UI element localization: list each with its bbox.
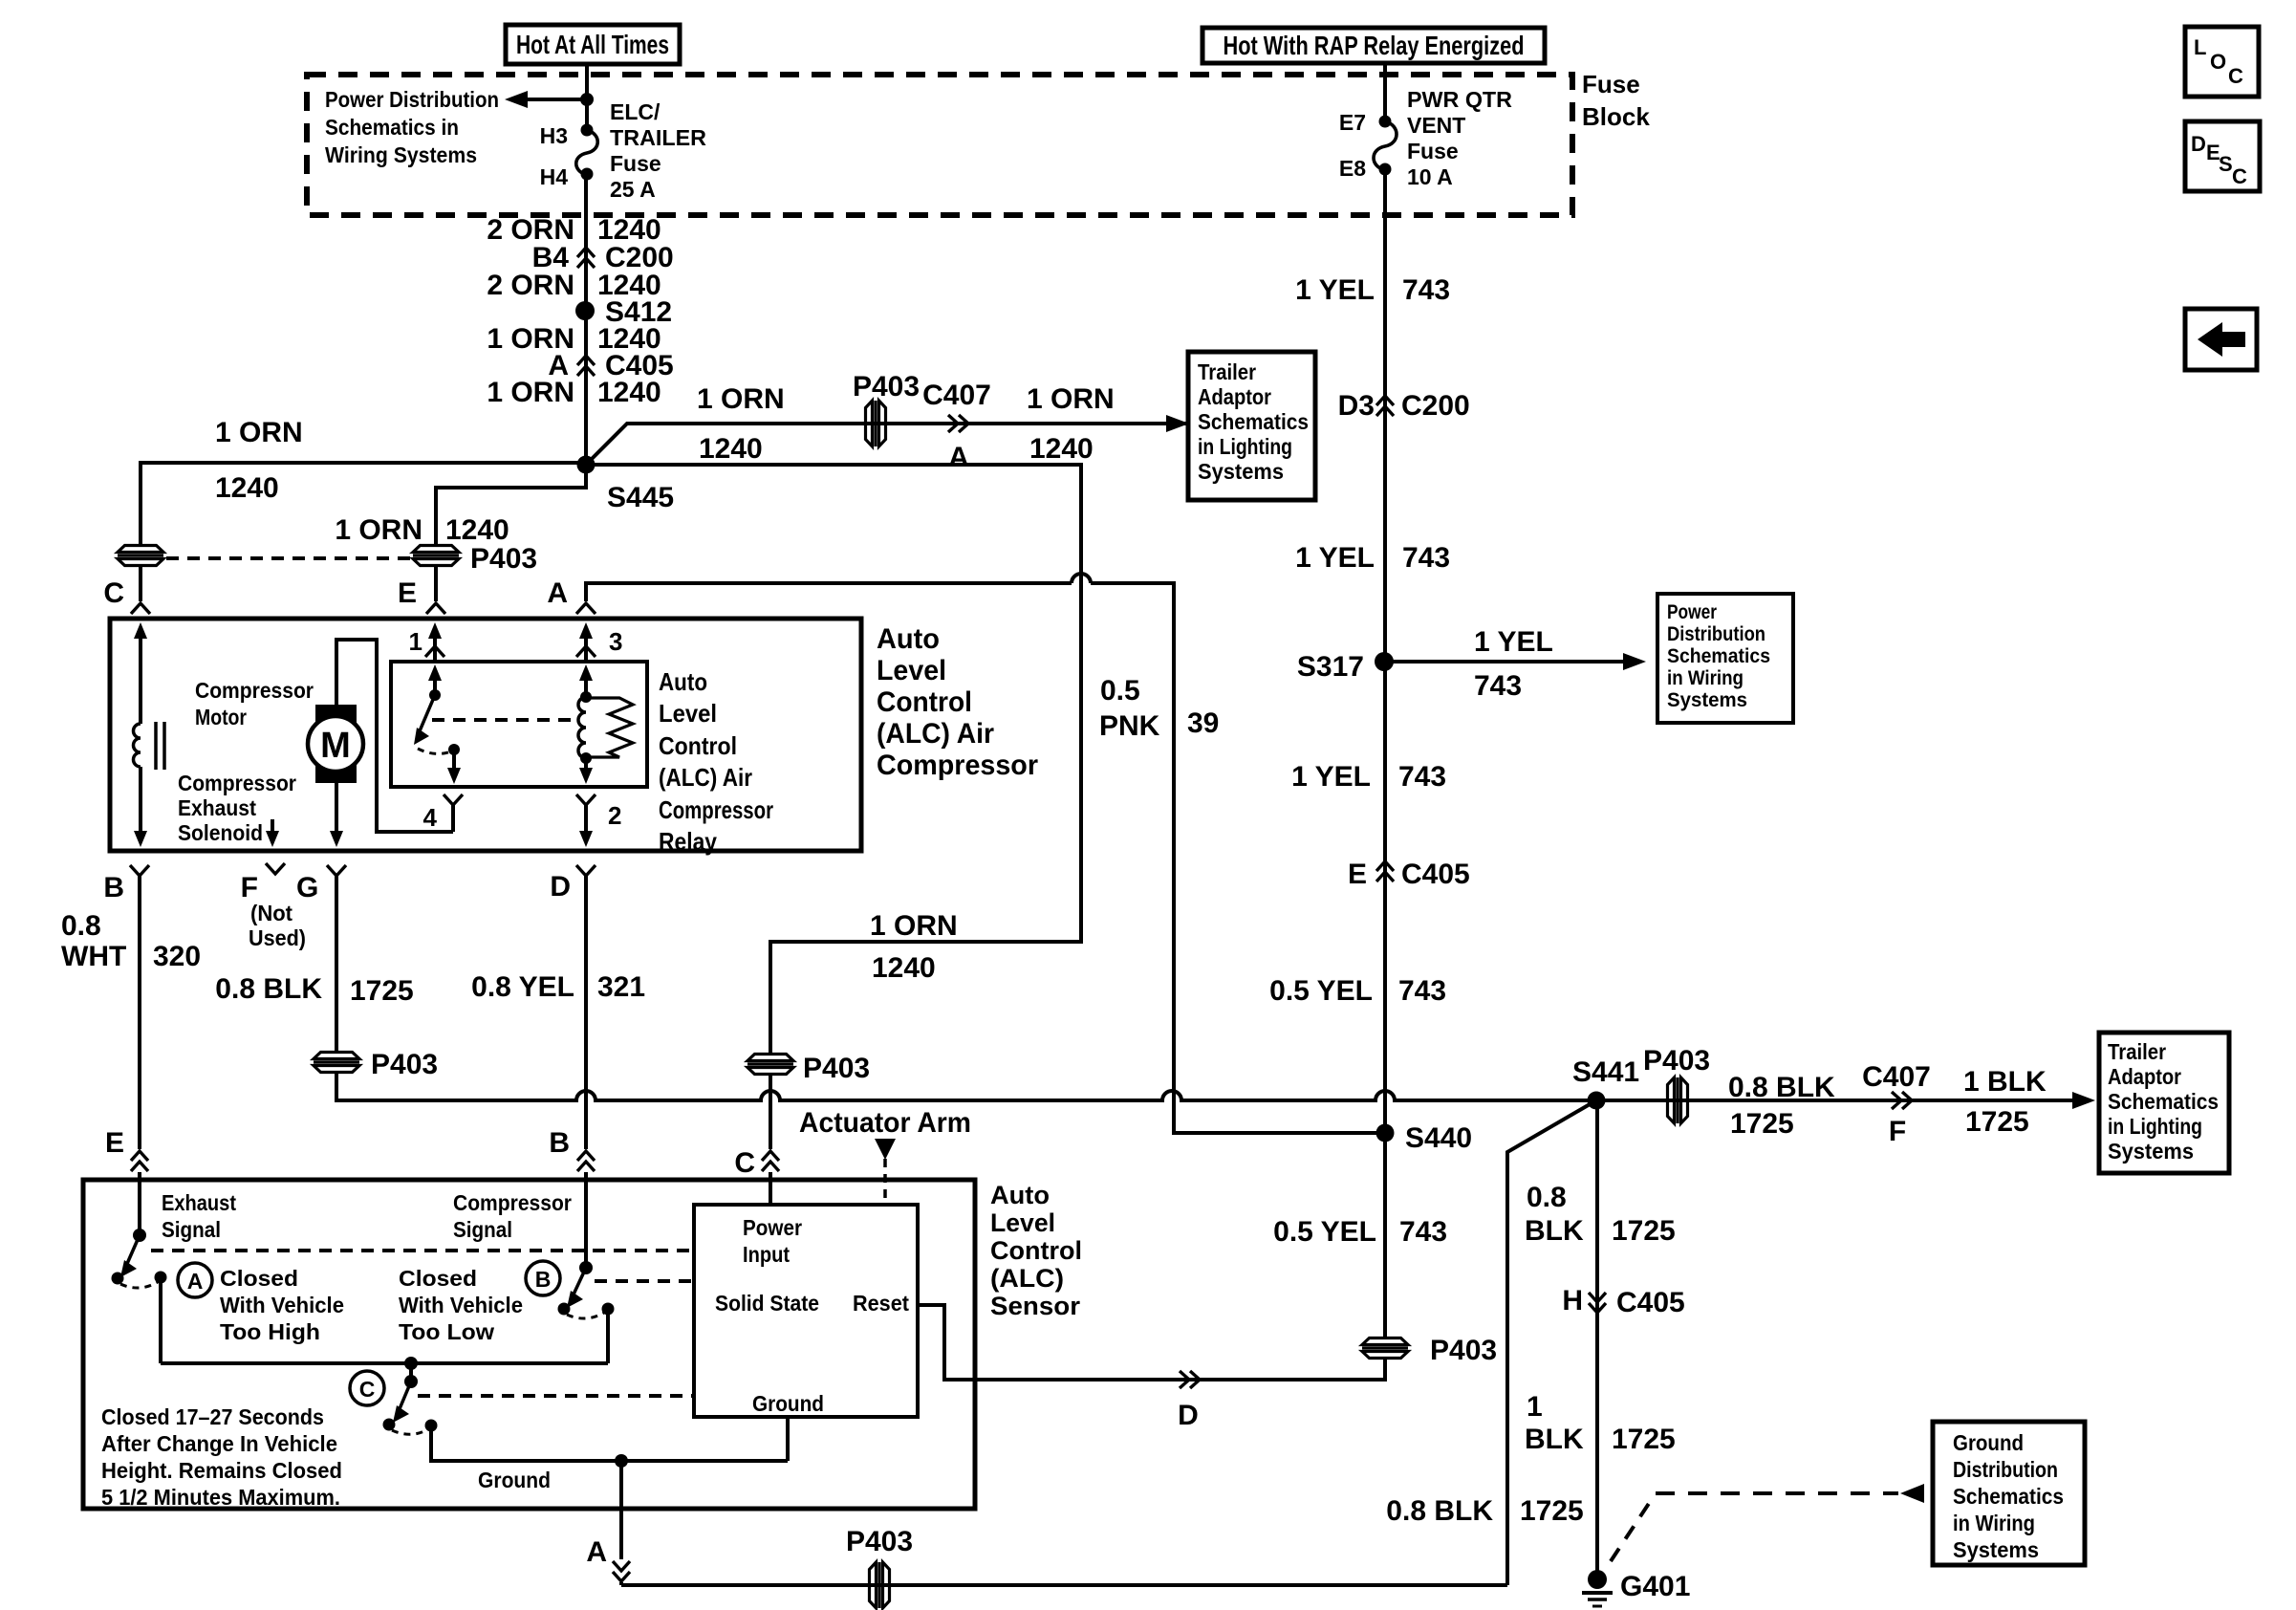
svg-text:PWR QTR: PWR QTR — [1407, 87, 1512, 112]
terminal B of compressor — [103, 865, 149, 1149]
dashed link between grommets — [166, 556, 411, 560]
svg-text:0.8 BLK: 0.8 BLK — [1728, 1072, 1835, 1103]
svg-text:F: F — [1889, 1116, 1906, 1147]
svg-text:1240: 1240 — [1029, 433, 1094, 465]
svg-text:321: 321 — [597, 971, 645, 1003]
svg-text:1725: 1725 — [1965, 1106, 2029, 1138]
terminal F of compressor (not used) — [241, 863, 319, 950]
label: 1 ORN 1240 on left branch — [215, 417, 303, 504]
svg-text:(ALC) Air: (ALC) Air — [877, 718, 994, 750]
relay pin 3 terminal — [576, 622, 622, 662]
svg-text:1: 1 — [409, 627, 422, 656]
svg-text:Schematics: Schematics — [1953, 1484, 2064, 1509]
svg-text:0.8: 0.8 — [61, 910, 101, 942]
svg-text:(Not: (Not — [250, 901, 292, 925]
svg-text:Signal: Signal — [162, 1217, 221, 1242]
wire: main ORN vertical from fuse H4 down to S445 — [584, 174, 588, 465]
label: 1 ORN 1240 on riser — [870, 910, 958, 984]
svg-text:743: 743 — [1399, 1216, 1447, 1248]
svg-text:Input: Input — [743, 1242, 790, 1267]
terminal G of compressor — [327, 865, 346, 1052]
svg-text:BLK: BLK — [1525, 1424, 1584, 1455]
svg-text:P403: P403 — [1430, 1335, 1497, 1366]
svg-text:743: 743 — [1398, 975, 1446, 1007]
sensor terminal A — [586, 1536, 630, 1585]
svg-text:320: 320 — [153, 941, 201, 972]
wire: grommet to E terminal — [434, 566, 438, 601]
svg-text:P403: P403 — [803, 1053, 870, 1084]
grommet P403 E column — [413, 543, 537, 575]
svg-text:Distribution: Distribution — [1667, 623, 1765, 645]
svg-text:Fuse: Fuse — [610, 151, 661, 176]
wire: switch C to ground rail — [431, 1425, 788, 1461]
svg-text:Used): Used) — [249, 925, 306, 950]
svg-text:Distribution: Distribution — [1953, 1457, 2058, 1482]
label: 0.8 WHT 320 — [61, 910, 201, 972]
connector C200 pin B4 — [532, 242, 674, 273]
svg-text:P403: P403 — [853, 371, 920, 402]
relay pin 2 terminal — [576, 794, 621, 847]
svg-text:H: H — [1562, 1285, 1583, 1316]
wire: arrow to Power Distribution reference — [505, 91, 587, 108]
svg-text:M: M — [320, 726, 351, 766]
not-used terminal F stub arrow — [266, 819, 279, 847]
wire: from RAP header down to fuse E7 — [1383, 63, 1387, 121]
svg-text:Solid State: Solid State — [715, 1291, 819, 1316]
splice S445 — [577, 456, 675, 514]
svg-text:Motor: Motor — [195, 705, 247, 729]
svg-text:Schematics: Schematics — [1667, 645, 1770, 667]
svg-text:Reset: Reset — [853, 1291, 909, 1316]
svg-text:Auto: Auto — [659, 667, 707, 696]
svg-text:C: C — [734, 1147, 755, 1179]
relay box — [391, 662, 647, 787]
node: junction at power distribution tap — [580, 93, 594, 106]
arrow into trailer adaptor box (bottom) — [2072, 1092, 2095, 1109]
label: 0.8 BLK 1725 — [1728, 1072, 1835, 1140]
svg-text:F: F — [241, 872, 258, 903]
connector C200 pin D3 — [1338, 390, 1470, 422]
svg-text:1725: 1725 — [1612, 1424, 1676, 1455]
header box: Hot At All Times — [506, 25, 680, 64]
svg-text:10 A: 10 A — [1407, 164, 1453, 189]
wire: S441 diagonal branch down left — [1507, 1100, 1596, 1585]
svg-text:Trailer: Trailer — [1198, 359, 1256, 384]
wire: ground pin down to rail — [786, 1417, 790, 1461]
svg-text:Ground: Ground — [752, 1391, 824, 1416]
svg-text:D: D — [1178, 1400, 1199, 1431]
svg-text:Power Distribution: Power Distribution — [325, 87, 499, 112]
relay coil — [578, 664, 593, 764]
svg-text:in Lighting: in Lighting — [2108, 1114, 2202, 1139]
arrow into trailer adaptor box — [1166, 415, 1189, 432]
terminal C of compressor — [103, 577, 150, 614]
compressor exhaust solenoid coil — [134, 622, 165, 847]
svg-text:O: O — [2210, 50, 2226, 74]
label: 1 YEL 743 — [1291, 761, 1446, 793]
label: 0.5 YEL 743 below S440 — [1273, 1216, 1447, 1248]
svg-text:TRAILER: TRAILER — [610, 125, 706, 150]
svg-text:S441: S441 — [1572, 1056, 1639, 1088]
svg-text:Block: Block — [1582, 102, 1650, 131]
svg-text:1725: 1725 — [350, 975, 414, 1007]
wire hop over ORN vertical — [1072, 574, 1091, 583]
svg-text:Signal: Signal — [453, 1217, 512, 1242]
svg-text:1: 1 — [1527, 1391, 1543, 1423]
svg-text:E: E — [398, 577, 417, 609]
svg-text:Power: Power — [1667, 601, 1717, 623]
svg-text:C: C — [2232, 164, 2247, 188]
svg-text:C407: C407 — [922, 380, 991, 411]
switch A (exhaust) — [112, 1172, 167, 1363]
svg-text:(ALC): (ALC) — [990, 1264, 1064, 1293]
dashed reference to ground distribution — [1611, 1484, 1924, 1561]
reference box: Ground Distribution Schematics in Wiring Systems — [1933, 1422, 2085, 1565]
wire: S445 down branch to E grommet — [436, 465, 586, 545]
wire: from Hot At All Times down to fuse H3 — [585, 64, 589, 130]
relay switch dashed actuate line — [432, 718, 575, 722]
svg-text:BLK: BLK — [1525, 1215, 1584, 1247]
svg-text:1 ORN: 1 ORN — [697, 383, 785, 415]
fuse F1: ELC/TRAILER Fuse 25 A, terminals H3 H4 — [540, 99, 707, 202]
label: 1 ORN 1240 before P403 — [697, 383, 785, 465]
connector C407 pin A on trailer feed — [922, 380, 991, 473]
svg-text:39: 39 — [1187, 707, 1219, 739]
svg-text:Too Low: Too Low — [399, 1319, 494, 1344]
switch C timer — [383, 1357, 438, 1434]
svg-text:With Vehicle: With Vehicle — [399, 1293, 523, 1317]
svg-text:VENT: VENT — [1407, 113, 1465, 138]
svg-text:1240: 1240 — [872, 952, 936, 984]
terminal A of compressor — [547, 577, 596, 614]
svg-text:Systems: Systems — [1198, 459, 1284, 484]
svg-text:Control: Control — [990, 1236, 1082, 1265]
svg-text:1 YEL: 1 YEL — [1295, 542, 1375, 574]
button box: back arrow — [2185, 309, 2257, 370]
svg-text:H4: H4 — [540, 164, 569, 189]
wire: ground rail to terminal A — [619, 1461, 623, 1559]
svg-text:0.5 YEL: 0.5 YEL — [1269, 975, 1373, 1007]
label: Closed With Vehicle Too High — [220, 1266, 344, 1344]
svg-text:Schematics in: Schematics in — [325, 115, 459, 140]
connector C407 pin D on reset line — [1178, 1371, 1200, 1431]
svg-text:Level: Level — [990, 1208, 1055, 1237]
circled B — [526, 1261, 560, 1295]
label: 0.8 BLK 1725 bottom — [1386, 1495, 1583, 1527]
svg-text:1 YEL: 1 YEL — [1291, 761, 1371, 793]
connector C405 pin H — [1562, 1285, 1684, 1318]
wire: S441 to trailer adaptor (bottom right) — [1596, 1099, 2086, 1102]
svg-text:D: D — [550, 871, 571, 903]
ALC sensor box — [83, 1180, 975, 1509]
solid state box — [694, 1205, 918, 1417]
label: 1 ORN 1240 after C407 — [1027, 383, 1115, 465]
splice S441 — [1572, 1056, 1639, 1110]
svg-text:0.8 YEL: 0.8 YEL — [471, 971, 574, 1003]
relay pin 4 terminal — [423, 794, 463, 832]
svg-text:A: A — [586, 1536, 607, 1568]
svg-text:Auto: Auto — [877, 623, 940, 655]
svg-text:S440: S440 — [1405, 1122, 1472, 1154]
svg-text:A: A — [948, 442, 969, 473]
svg-text:1 ORN: 1 ORN — [215, 417, 303, 448]
compressor motor M — [308, 705, 363, 783]
label: Auto Level Control (ALC) Air Compressor Relay — [659, 667, 773, 856]
svg-text:0.5 YEL: 0.5 YEL — [1273, 1216, 1376, 1248]
label: 1 YEL 743 — [1295, 542, 1450, 574]
svg-text:P403: P403 — [846, 1526, 913, 1557]
svg-text:5 1/2 Minutes Maximum.: 5 1/2 Minutes Maximum. — [101, 1485, 340, 1510]
svg-text:0.8: 0.8 — [1527, 1182, 1567, 1213]
relay switch — [414, 664, 461, 784]
label: 1 ORN 1240 — [487, 323, 661, 355]
switch B (compressor) — [558, 1172, 615, 1363]
svg-text:743: 743 — [1474, 670, 1522, 702]
svg-text:0.8 BLK: 0.8 BLK — [1386, 1495, 1493, 1527]
wire: A terminal riser of PNK circuit — [586, 583, 1072, 601]
label: Compressor Exhaust Solenoid — [178, 771, 296, 845]
svg-text:Ground: Ground — [1953, 1430, 2024, 1455]
svg-text:in Wiring: in Wiring — [1667, 667, 1744, 689]
svg-text:C: C — [2228, 64, 2243, 88]
svg-text:Systems: Systems — [1667, 689, 1747, 711]
svg-text:Schematics: Schematics — [2108, 1089, 2219, 1114]
svg-text:Compressor: Compressor — [453, 1190, 572, 1215]
svg-text:Compressor: Compressor — [195, 678, 314, 703]
ground G401 — [1582, 1570, 1690, 1606]
svg-text:1 YEL: 1 YEL — [1474, 626, 1553, 658]
svg-text:0.5: 0.5 — [1100, 675, 1140, 707]
svg-text:1 YEL: 1 YEL — [1295, 274, 1375, 306]
svg-text:1 ORN: 1 ORN — [335, 514, 422, 546]
svg-text:After Change In Vehicle: After Change In Vehicle — [101, 1431, 337, 1456]
label: 2 ORN 1240 — [487, 270, 661, 301]
svg-text:C405: C405 — [1616, 1287, 1685, 1318]
svg-text:Compressor: Compressor — [178, 771, 296, 795]
svg-text:Hot With RAP Relay Energized: Hot With RAP Relay Energized — [1224, 31, 1525, 60]
reference box: Trailer Adaptor Schematics in Lighting Systems (top) — [1188, 352, 1315, 500]
dashed timer line — [418, 1394, 692, 1398]
svg-text:Control: Control — [877, 686, 972, 718]
svg-text:Closed 17–27 Seconds: Closed 17–27 Seconds — [101, 1404, 324, 1429]
label: 2 ORN 1240 — [487, 214, 661, 246]
svg-text:Adaptor: Adaptor — [2108, 1064, 2181, 1089]
wire: bottom ground run — [621, 1583, 1507, 1587]
wire: S445 right branch to PNK riser — [586, 465, 1081, 1054]
connector P403 inline on bottom ground run — [846, 1526, 913, 1608]
label: 0.8 YEL 321 — [471, 971, 645, 1003]
svg-text:Closed: Closed — [399, 1266, 477, 1291]
svg-text:Level: Level — [877, 655, 946, 686]
svg-text:743: 743 — [1402, 542, 1450, 574]
splice S412 — [575, 296, 672, 328]
svg-text:0.8 BLK: 0.8 BLK — [215, 973, 322, 1005]
svg-text:D: D — [2191, 132, 2206, 156]
svg-text:Compressor: Compressor — [877, 750, 1038, 781]
wire: S445 diagonal branch to trailer adaptor feed — [586, 424, 1187, 465]
actuator arm dashed input — [875, 1139, 896, 1203]
button box: LOC — [2185, 27, 2259, 97]
wire: coil to pin 2 — [579, 758, 593, 784]
connector C407 pin F — [1862, 1061, 1931, 1147]
ALC air compressor box — [110, 619, 861, 851]
svg-text:C: C — [359, 1377, 376, 1402]
splice S440 — [1376, 1122, 1473, 1154]
svg-text:Ground: Ground — [478, 1468, 551, 1492]
connector C405 pin E — [1348, 859, 1470, 890]
wire: PNK continues right and down to S440 — [1091, 583, 1376, 1133]
label: 1 BLK 1725 — [1963, 1066, 2047, 1138]
wire: reset output — [918, 1305, 975, 1380]
label: 0.8 BLK 1725 — [215, 973, 413, 1007]
svg-text:P403: P403 — [1643, 1045, 1710, 1077]
label: 1 ORN 1240 — [487, 377, 661, 408]
label: 0.5 PNK 39 — [1099, 675, 1219, 742]
svg-text:G: G — [296, 872, 318, 903]
svg-text:Fuse: Fuse — [1407, 139, 1459, 163]
relay pin 1 terminal — [409, 622, 444, 662]
label: Auto Level Control (ALC) Sensor — [990, 1181, 1082, 1320]
svg-text:Adaptor: Adaptor — [1198, 384, 1271, 409]
grommet P403 left column — [118, 546, 163, 566]
svg-text:H3: H3 — [540, 123, 568, 148]
svg-text:C405: C405 — [1401, 859, 1470, 890]
fuse block dashed box — [307, 75, 1572, 215]
svg-text:Systems: Systems — [1953, 1537, 2039, 1562]
svg-text:Fuse: Fuse — [1582, 70, 1640, 98]
svg-text:S: S — [2219, 152, 2233, 176]
wire: motor bottom to box edge — [330, 783, 343, 847]
svg-text:in Lighting: in Lighting — [1198, 434, 1292, 459]
svg-text:Level: Level — [659, 699, 717, 728]
sensor terminal B — [549, 1127, 595, 1171]
svg-text:B: B — [103, 872, 124, 903]
circled A — [178, 1263, 212, 1297]
svg-text:1240: 1240 — [699, 433, 763, 465]
svg-text:WHT: WHT — [61, 941, 126, 972]
svg-text:S317: S317 — [1297, 651, 1364, 683]
main BLK ground wire with hops — [336, 1073, 1590, 1100]
svg-text:1240: 1240 — [445, 514, 509, 546]
label: Auto Level Control (ALC) Air Compressor — [877, 623, 1038, 781]
svg-text:Closed: Closed — [220, 1266, 298, 1291]
terminal D of compressor — [550, 865, 596, 1149]
svg-text:Compressor: Compressor — [659, 795, 773, 824]
svg-text:S445: S445 — [607, 482, 674, 513]
svg-text:Solenoid: Solenoid — [178, 820, 263, 845]
button box: DESC — [2185, 121, 2260, 191]
circled C — [350, 1371, 384, 1405]
svg-text:743: 743 — [1398, 761, 1446, 793]
sensor terminal E — [105, 1127, 148, 1171]
svg-text:ELC/: ELC/ — [610, 99, 661, 124]
svg-text:Schematics: Schematics — [1198, 409, 1309, 434]
label: 1 ORN 1240 on E branch — [335, 514, 509, 546]
fuse F2: PWR QTR VENT Fuse 10 A, terminals E7 E8 — [1339, 87, 1513, 189]
svg-text:E: E — [105, 1127, 124, 1159]
terminal E of compressor — [398, 577, 445, 614]
svg-text:Height. Remains Closed: Height. Remains Closed — [101, 1458, 342, 1483]
svg-text:P403: P403 — [371, 1049, 438, 1080]
svg-text:E: E — [1348, 859, 1367, 890]
svg-text:2 ORN: 2 ORN — [487, 270, 574, 301]
svg-text:Relay: Relay — [659, 827, 717, 856]
svg-text:1 ORN: 1 ORN — [870, 910, 958, 942]
grommet P403 on YEL column — [1362, 1335, 1497, 1366]
note: Power Distribution Schematics in Wiring Systems — [325, 87, 499, 167]
wire: grommet to C terminal — [139, 566, 142, 601]
svg-text:1725: 1725 — [1612, 1215, 1676, 1247]
svg-text:C407: C407 — [1862, 1061, 1931, 1093]
svg-text:1 ORN: 1 ORN — [1027, 383, 1115, 415]
svg-text:1 BLK: 1 BLK — [1963, 1066, 2047, 1098]
connector P403 inline at S441 — [1643, 1045, 1710, 1123]
svg-text:3: 3 — [609, 627, 622, 656]
connector P403 inline on trailer feed — [853, 371, 920, 446]
svg-text:Exhaust: Exhaust — [178, 795, 256, 820]
header box: Hot With RAP Relay Energized — [1202, 28, 1545, 63]
svg-text:4: 4 — [423, 803, 438, 832]
svg-text:Power: Power — [743, 1215, 802, 1240]
svg-text:743: 743 — [1402, 274, 1450, 306]
svg-text:Too High: Too High — [220, 1319, 320, 1344]
svg-text:Exhaust: Exhaust — [162, 1190, 236, 1215]
svg-text:Wiring Systems: Wiring Systems — [325, 142, 477, 167]
wire: grommet down to sensor C terminal — [769, 1075, 772, 1149]
reference box: Power Distribution Schematics in Wiring Systems — [1657, 594, 1793, 723]
svg-text:Systems: Systems — [2108, 1139, 2194, 1164]
reference box: Trailer Adaptor Schematics in Lighting Systems (bottom) — [2099, 1033, 2229, 1173]
svg-text:Control: Control — [659, 731, 737, 760]
splice S317 with arrow to power distribution — [1297, 626, 1646, 702]
svg-text:1240: 1240 — [215, 472, 279, 504]
sensor terminal C — [734, 1147, 779, 1207]
svg-text:P403: P403 — [470, 543, 537, 575]
dashed compressor signal line — [595, 1279, 692, 1283]
svg-text:E8: E8 — [1339, 156, 1366, 181]
label: Fuse Block — [1582, 70, 1650, 131]
label: Compressor Signal — [453, 1190, 572, 1242]
svg-text:E7: E7 — [1339, 110, 1366, 135]
grommet P403 on G column — [314, 1049, 438, 1080]
svg-text:1 ORN: 1 ORN — [487, 377, 574, 408]
svg-text:Trailer: Trailer — [2108, 1039, 2166, 1064]
svg-text:(ALC) Air: (ALC) Air — [659, 763, 752, 792]
svg-text:B: B — [549, 1127, 570, 1159]
label: Exhaust Signal — [162, 1190, 236, 1242]
svg-text:G401: G401 — [1620, 1571, 1690, 1602]
svg-text:1240: 1240 — [597, 377, 661, 408]
wire: S441 straight down to G401 — [1595, 1100, 1599, 1576]
label: Power Input — [743, 1215, 802, 1267]
label: 1 YEL 743 — [1295, 274, 1450, 306]
svg-text:C200: C200 — [1401, 390, 1470, 422]
label: 0.5 YEL 743 — [1269, 975, 1446, 1007]
svg-text:1725: 1725 — [1520, 1495, 1584, 1527]
svg-text:1725: 1725 — [1730, 1108, 1794, 1140]
svg-text:Hot At All Times: Hot At All Times — [516, 30, 669, 59]
svg-text:A: A — [547, 577, 568, 609]
svg-text:B: B — [535, 1267, 552, 1292]
svg-text:Auto: Auto — [990, 1181, 1050, 1209]
svg-text:Actuator Arm: Actuator Arm — [799, 1107, 971, 1139]
label: Closed With Vehicle Too Low — [399, 1266, 523, 1344]
svg-text:D3: D3 — [1338, 390, 1375, 422]
svg-text:Sensor: Sensor — [990, 1292, 1080, 1320]
YEL vertical wire from fuse E8 to P403 — [1383, 169, 1387, 1338]
svg-text:PNK: PNK — [1099, 710, 1160, 742]
label: 1 BLK 1725 on ground leg — [1525, 1391, 1676, 1455]
